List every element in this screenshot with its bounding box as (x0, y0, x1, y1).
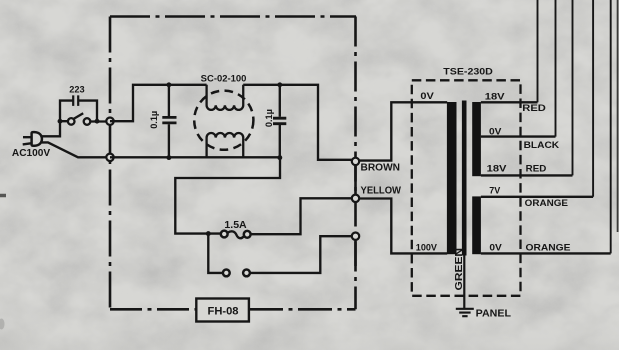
transformer secondary tap wire 18V bottom (481, 174, 573, 176)
svg-text:ORANGE: ORANGE (525, 198, 568, 208)
AC plug body (32, 132, 42, 146)
chassis boundary bottom edge left of FH-08 (110, 308, 196, 311)
transformer primary winding bar (447, 102, 457, 254)
wire plug to switch branch (42, 121, 60, 136)
svg-text:BLACK: BLACK (524, 139, 560, 150)
wire upper node to top line (110, 85, 207, 121)
svg-text:ORANGE: ORANGE (526, 243, 571, 253)
svg-text:TSE-230D: TSE-230D (443, 67, 493, 77)
chassis boundary left edge (109, 17, 112, 310)
svg-text:0.1µ: 0.1µ (263, 109, 274, 127)
svg-text:18V: 18V (487, 163, 508, 174)
svg-text:18V: 18V (485, 90, 506, 101)
chassis boundary right edge (354, 17, 357, 310)
svg-text:0.1µ: 0.1µ (148, 111, 159, 129)
svg-text:223: 223 (69, 84, 84, 95)
svg-text:PANEL: PANEL (476, 309, 511, 320)
transformer TSE-230D dashed box (412, 80, 521, 295)
switch S1 (68, 118, 75, 125)
chassis right edge solid segment below spare node (354, 235, 357, 266)
junction dot right of switch (95, 119, 100, 124)
svg-text:YELLOW: YELLOW (361, 185, 402, 196)
choke bottom winding (207, 133, 244, 157)
transformer secondary tap wire 0V bottom (481, 252, 611, 254)
input node upper (106, 118, 113, 125)
chassis boundary bottom edge right of FH-08 (249, 308, 356, 311)
input node lower (106, 154, 113, 161)
riser ORANGE bottom (610, 0, 612, 253)
scan artifact left edge tick (0, 194, 6, 198)
scan artifact left bottom smudge (0, 319, 5, 330)
riser RED bottom (572, 0, 574, 175)
riser RED top (537, 0, 539, 102)
capacitor C1 0.1u left lead (168, 85, 170, 158)
transformer secondary tap wire 18V top (481, 101, 538, 103)
capacitor C2 0.1u right lead (279, 85, 281, 158)
junction dots C1 (166, 82, 171, 87)
ground symbol PANEL (456, 309, 474, 316)
scan artifact right edge line (617, 0, 619, 232)
svg-text:0V: 0V (420, 90, 434, 101)
svg-text:1.5A: 1.5A (224, 220, 246, 231)
spare fuse clip branch wire (208, 234, 352, 273)
fuse F1 leads (206, 198, 352, 234)
wire bottom line (110, 157, 280, 233)
node BROWN (352, 158, 359, 165)
svg-text:0V: 0V (489, 241, 502, 252)
svg-text:0V: 0V (489, 126, 502, 137)
transformer secondary tap wire 7V (481, 196, 593, 198)
svg-text:AC100V: AC100V (12, 148, 51, 159)
capacitor C1 plates (162, 117, 176, 123)
riser ORANGE top (592, 0, 594, 197)
node spare (352, 233, 359, 240)
node YELLOW (352, 195, 359, 202)
transformer secondary tap wire 0V mid (481, 135, 556, 137)
green wire to panel ground (463, 254, 465, 309)
junction dot left of switch (58, 119, 63, 124)
junction dot fuse input (206, 231, 211, 236)
svg-text:FH-08: FH-08 (208, 305, 239, 317)
svg-text:100V: 100V (416, 241, 438, 252)
transformer core bar (462, 101, 467, 256)
spare fuse clip right (243, 270, 250, 277)
wire YELLOW node to transformer primary 100V (359, 199, 447, 254)
riser BLACK (555, 0, 557, 137)
svg-text:RED: RED (526, 162, 547, 173)
fuse F1 element (228, 231, 244, 238)
svg-text:BROWN: BROWN (361, 162, 401, 173)
AC plug prongs (23, 137, 32, 144)
junction dots C2 (277, 82, 282, 87)
wire top line right section (243, 85, 352, 160)
choke SC-02-100 dashed circle (194, 91, 253, 150)
wire plug to lower node (42, 142, 110, 157)
transformer secondary winding bar 18-0-18 (472, 102, 481, 176)
chassis right edge solid segment BROWN-YELLOW (354, 160, 357, 199)
svg-text:GREEN: GREEN (454, 248, 465, 291)
choke top winding (207, 85, 244, 110)
chassis boundary top edge (110, 15, 356, 18)
svg-text:SC-02-100: SC-02-100 (201, 73, 247, 84)
transformer secondary winding bar 7-0 (472, 196, 481, 254)
wire BROWN node to transformer primary 0V (359, 102, 447, 160)
spare fuse clip left (223, 270, 230, 277)
capacitor C2 plates (273, 118, 286, 124)
fuse F1 clips (221, 231, 228, 238)
capacitor 223 leads (60, 101, 97, 122)
svg-text:RED: RED (522, 102, 546, 113)
FH-08 box (196, 299, 249, 322)
wire switch line (60, 120, 110, 123)
capacitor 223 plates (73, 95, 78, 106)
svg-text:7V: 7V (489, 185, 501, 196)
